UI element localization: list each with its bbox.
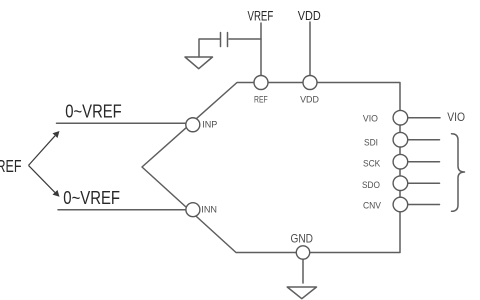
svg-text:REF: REF [254, 93, 268, 104]
svg-text:INP: INP [202, 118, 217, 129]
svg-text:VIO: VIO [447, 110, 465, 124]
svg-text:CNV: CNV [363, 200, 382, 211]
svg-text:0~VREF: 0~VREF [63, 187, 120, 208]
svg-text:VIO: VIO [363, 112, 378, 123]
svg-text:SDI: SDI [364, 137, 378, 148]
svg-text:VDD: VDD [300, 93, 319, 104]
svg-text:SDO: SDO [362, 179, 380, 190]
svg-text:GND: GND [291, 232, 314, 246]
svg-text:VDD: VDD [298, 8, 321, 23]
svg-text:SCK: SCK [363, 158, 381, 169]
svg-text:INN: INN [201, 203, 217, 214]
svg-text:0~VREF: 0~VREF [65, 101, 121, 122]
svg-text:REF: REF [0, 156, 22, 176]
svg-text:VREF: VREF [248, 8, 274, 23]
